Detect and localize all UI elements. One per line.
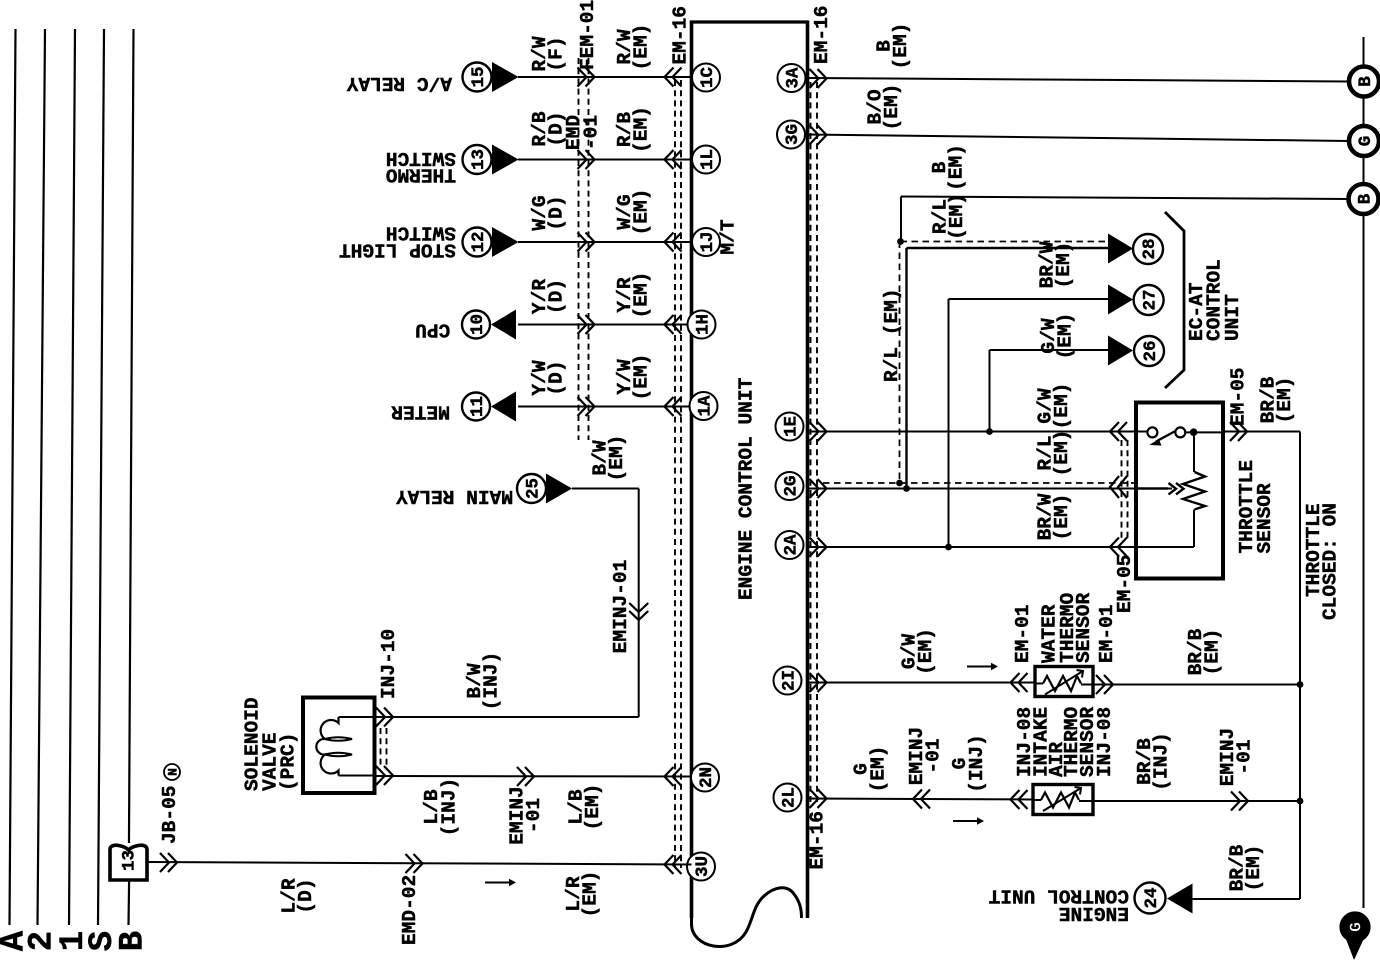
svg-text:13: 13 (119, 850, 139, 871)
pin 2I on right bus (774, 667, 802, 695)
svg-text:METER: METER (391, 400, 450, 422)
svg-text:ENGINE: ENGINE (1059, 902, 1129, 924)
device A/C RELAY (terminal 15) wire/arrow/circle (463, 62, 692, 92)
device label METER (391, 400, 450, 422)
svg-text:(EM): (EM) (630, 272, 652, 319)
junction block JB-05 box (110, 845, 147, 880)
wire label B/O (EM) (864, 84, 903, 131)
wire label B (EM) mid (929, 144, 968, 191)
label WATER THERMO SENSOR (1039, 593, 1095, 663)
node G/W junction on 1E wire (986, 428, 993, 435)
pin 3U on left bus (687, 853, 715, 881)
EM-16 dashed boundary left bus (675, 80, 681, 868)
svg-text:(EM): (EM) (1243, 845, 1265, 892)
device THERMO SWITCH (terminal 13) wire/arrow/circle (463, 145, 692, 175)
svg-text:2N: 2N (697, 767, 717, 788)
intake air thermo sensor box (1033, 785, 1093, 815)
wire label G (INJ) (949, 734, 988, 793)
wire label BR/W (EM) upper (1036, 241, 1075, 288)
wire intake sensor to BR/B line (1093, 792, 1300, 811)
svg-text:B: B (1355, 193, 1375, 204)
wire label L/B (EM) (565, 784, 604, 831)
terminal 26 arrow+circle (1108, 336, 1164, 367)
svg-text:11: 11 (468, 396, 488, 417)
wire label BR/W (EM) lower (1034, 493, 1073, 540)
wire dashed R/L to terminal 28 (901, 241, 1109, 243)
pin 2A on right bus (776, 531, 804, 559)
wire 3G to circled G (808, 126, 1350, 145)
svg-text:EM-01: EM-01 (1096, 605, 1118, 664)
svg-text:(D): (D) (295, 878, 317, 913)
svg-text:26: 26 (1141, 341, 1161, 362)
svg-text:(EM): (EM) (1051, 383, 1073, 430)
intake air resistor (1033, 787, 1093, 811)
node BR/B junction (intake) (1297, 798, 1304, 805)
svg-text:(EM): (EM) (881, 84, 903, 131)
svg-text:(INJ): (INJ) (1150, 732, 1172, 791)
wire 3A to circled B (808, 69, 1350, 88)
terminal 28 arrow+circle (1108, 234, 1163, 265)
connector label EMINJ-01 (intake right) (1217, 728, 1256, 787)
zone letter S (84, 931, 122, 951)
label ENGINE CONTROL UNIT (center) (735, 377, 757, 600)
wire label R/W (EM) EM side (614, 24, 653, 71)
zone letter 2 (24, 931, 62, 951)
wire solenoid to pin 2N (375, 767, 692, 786)
wire label L/B (INJ) (421, 778, 461, 837)
pin 2L on right bus (774, 784, 802, 812)
svg-text:1H: 1H (693, 314, 713, 335)
junction block number 13 (119, 850, 139, 871)
direction arrow above 2I wire (967, 663, 998, 671)
svg-text:-01: -01 (1233, 739, 1255, 774)
node BR/B junction (water) (1297, 681, 1304, 688)
label M/T at pin 1J (717, 219, 739, 254)
connector label INJ-08 (right) (1094, 707, 1116, 777)
svg-text:3A: 3A (783, 67, 803, 88)
svg-text:(EM): (EM) (867, 746, 889, 793)
wire label R/W (F) (529, 36, 568, 71)
svg-text:1J: 1J (698, 232, 718, 253)
svg-text:G: G (1347, 922, 1366, 932)
svg-text:(D): (D) (545, 279, 567, 314)
wire JB-05 to pin 3U (147, 853, 692, 874)
direction arrow on 3U wire (485, 879, 516, 887)
wire solid to terminal 28 (907, 248, 1109, 489)
connector label EMD-01 (563, 115, 603, 150)
svg-text:M/T: M/T (717, 219, 739, 254)
svg-text:-01: -01 (523, 798, 545, 833)
svg-text:(INJ): (INJ) (966, 734, 988, 793)
svg-text:(EM): (EM) (1051, 430, 1073, 477)
wire throttle switch to BR/B line (1223, 422, 1300, 441)
circled B (top) (1349, 67, 1379, 97)
engine control unit left bus line EM-16 (690, 21, 694, 919)
water thermo resistor (1035, 670, 1093, 695)
connector label EMD-02 (399, 875, 421, 945)
connector label EM-01 (left) (1012, 605, 1034, 664)
wire water sensor to BR/B line (1093, 675, 1300, 694)
wire label BR/B (EM) at water (1185, 628, 1224, 675)
wire pin 2G to throttle wiper (808, 476, 1173, 498)
svg-text:EM-16: EM-16 (669, 6, 691, 65)
wire label Y/R (EM) EM side (614, 272, 653, 319)
circled B (lower) (1349, 184, 1379, 214)
pin 2G on right bus (776, 472, 804, 500)
svg-text:(EM): (EM) (1053, 242, 1075, 289)
svg-text:(EM): (EM) (1054, 313, 1076, 360)
device MAIN RELAY (terminal 25) wire/arrow/circle (339, 474, 649, 718)
svg-text:(EM): (EM) (945, 144, 967, 191)
svg-text:B: B (1356, 76, 1376, 87)
svg-text:(INJ): (INJ) (480, 652, 502, 711)
connector label INJ-10 (378, 629, 400, 699)
svg-text:THERMO: THERMO (386, 163, 456, 185)
grid line / zone S (98, 29, 104, 925)
label EM-16 top right (811, 6, 833, 65)
throttle sensor box (1136, 403, 1223, 579)
terminal 27 arrow+circle (1108, 285, 1164, 316)
direction arrow below 2L wire (953, 817, 984, 825)
wire label R/L (EM) 2col (929, 193, 968, 240)
svg-text:25: 25 (523, 478, 543, 499)
wire label G (EM) (850, 746, 889, 793)
svg-text:(INJ): (INJ) (438, 778, 460, 837)
svg-text:EM-05: EM-05 (1114, 555, 1136, 614)
device label STOP LIGHT SWITCH (339, 221, 456, 260)
svg-text:(EM): (EM) (630, 354, 652, 401)
svg-text:1C: 1C (698, 67, 718, 88)
svg-text:SENSOR: SENSOR (1254, 483, 1276, 553)
svg-text:UNIT: UNIT (1222, 294, 1244, 341)
svg-text:ENGINE CONTROL UNIT: ENGINE CONTROL UNIT (735, 377, 757, 600)
connector label EMINJ-01 (2L wire) (906, 727, 945, 786)
label SOLENOID VALVE (PRC) (241, 697, 299, 791)
svg-text:2L: 2L (779, 787, 799, 808)
connector label JB-05 (159, 786, 181, 845)
svg-text:(D): (D) (545, 360, 567, 395)
svg-text:1A: 1A (695, 395, 715, 416)
svg-text:SENSOR: SENSOR (1073, 593, 1095, 663)
zone letter A (0, 930, 34, 951)
svg-text:INJ-10: INJ-10 (378, 629, 400, 699)
wire BR/B to terminal 24 (1193, 898, 1301, 900)
svg-text:(EM): (EM) (630, 24, 652, 71)
wire label L/R (D) (278, 878, 317, 913)
bus bottom continuation squiggle (692, 888, 802, 947)
svg-text:(EM): (EM) (946, 193, 968, 240)
label EC-AT CONTROL UNIT (1186, 259, 1244, 341)
EM-05 dashed boundary at throttle (1122, 440, 1128, 540)
svg-text:2I: 2I (779, 670, 799, 691)
svg-text:EM-05: EM-05 (1227, 368, 1249, 427)
zone letter B (115, 931, 153, 951)
wire to terminal 26 (990, 350, 1109, 432)
svg-text:EMINJ-01: EMINJ-01 (610, 560, 632, 654)
wire label W/G (EM) EM side (614, 189, 653, 236)
label R/L (EM) vertical (881, 288, 903, 382)
EM-16 dashed boundary right bus (811, 82, 818, 802)
device label CPU (415, 318, 450, 340)
label THROTTLE SENSOR (1236, 460, 1276, 554)
svg-text:JB-05: JB-05 (159, 786, 181, 845)
circled G (middle) (1349, 126, 1379, 156)
svg-text:MAIN RELAY: MAIN RELAY (396, 485, 513, 507)
FEM-01/EMD-01 dashed boundary (579, 58, 589, 440)
device CPU (terminal 10) wire/arrow/circle (462, 310, 692, 340)
wire label G/W (EM) lower (1034, 383, 1073, 430)
right edge vertical wire (1363, 37, 1365, 908)
circled G to other page (bottom right) (1342, 914, 1369, 960)
svg-text:(EM): (EM) (606, 435, 628, 482)
device label A/C RELAY (346, 72, 452, 94)
svg-text:2A: 2A (781, 534, 801, 555)
svg-text:(EM): (EM) (630, 106, 652, 153)
svg-text:27: 27 (1140, 290, 1160, 311)
wire label BR/B (INJ) (1134, 732, 1173, 791)
label THROTTLE CLOSED: ON (1303, 503, 1342, 620)
connector label EM-05 (upper) (1227, 368, 1249, 427)
wire label Y/W (EM) EM side (614, 354, 653, 401)
svg-text:(EM): (EM) (1201, 629, 1223, 676)
svg-text:EMD-02: EMD-02 (399, 875, 421, 945)
svg-text:STOP LIGHT: STOP LIGHT (339, 239, 456, 261)
svg-text:FEM-01: FEM-01 (577, 0, 599, 70)
wire label BR/B (EM) upper right (1257, 376, 1296, 423)
connector label EMINJ-01 (vertical wire) (610, 560, 632, 654)
throttle wiper arrow (1136, 483, 1184, 494)
svg-text:EM-16: EM-16 (806, 811, 828, 870)
node BR/W junction on 2A wire (945, 544, 952, 551)
wire label B/W (INJ) (464, 652, 503, 711)
svg-text:-01: -01 (922, 738, 944, 773)
connector label FEM-01 (577, 0, 599, 70)
zone letter 1 (55, 931, 93, 951)
svg-text:(PRC): (PRC) (277, 733, 299, 792)
svg-text:1L: 1L (698, 149, 718, 170)
wire pin 2I to water thermo sensor (808, 673, 1036, 692)
svg-text:24: 24 (1142, 888, 1162, 909)
device METER (terminal 11) wire/arrow/circle (462, 392, 692, 422)
engine control unit top line (690, 20, 808, 23)
engine control unit right bus line EM-16 (806, 21, 810, 919)
EC-AT bracket (1165, 212, 1184, 388)
wire label Y/R (D) (529, 279, 568, 314)
svg-text:INJ-08: INJ-08 (1094, 707, 1116, 777)
svg-text:12: 12 (469, 232, 489, 253)
wire pin 2L to intake sensor (808, 789, 1034, 809)
svg-text:-01: -01 (580, 115, 602, 150)
connector label EM-05 (lower) (1114, 555, 1136, 614)
wire label BR/B (EM) at 24 (1226, 844, 1265, 891)
svg-text:N: N (165, 768, 180, 776)
wire label B/W (EM) (589, 435, 628, 482)
svg-text:EM-01: EM-01 (1012, 605, 1034, 664)
pin 2N on left bus (691, 764, 719, 792)
svg-text:(EM): (EM) (915, 628, 937, 675)
wire to terminal 27 (949, 299, 1109, 547)
pin 3G on right bus (777, 121, 805, 149)
svg-text:(D): (D) (545, 195, 567, 230)
pin 1J on left bus (692, 228, 720, 256)
pin 1L on left bus (692, 146, 720, 174)
svg-text:B: B (115, 931, 153, 951)
wire pin 1E to throttle switch (808, 422, 1148, 441)
throttle switch contacts (1147, 427, 1223, 445)
svg-text:(EM): (EM) (579, 871, 601, 918)
svg-text:(EM): (EM) (1051, 494, 1073, 541)
solenoid coil symbol (316, 717, 375, 776)
wire label Y/W (D) (529, 360, 568, 395)
pin 3A on right bus (778, 64, 806, 92)
svg-text:15: 15 (469, 67, 489, 88)
wire label G/W (EM) at 2I (898, 628, 937, 675)
grid line / zone A (10, 29, 16, 925)
svg-text:(EM): (EM) (890, 23, 912, 70)
wire pin 2A to throttle resistor (808, 538, 1195, 557)
device label THERMO SWITCH (386, 147, 456, 186)
svg-text:CPU: CPU (415, 318, 450, 340)
svg-text:EM-16: EM-16 (811, 6, 833, 65)
connector label EMINJ-01 (2N wire) (506, 786, 545, 845)
svg-text:CLOSED: ON: CLOSED: ON (1319, 503, 1341, 620)
svg-text:3G: 3G (783, 124, 803, 145)
pin 1H on left bus (688, 311, 716, 339)
device STOP LIGHT SWITCH (terminal 12) wire/arrow/circle (463, 227, 692, 257)
svg-text:2G: 2G (781, 476, 801, 497)
pin 1A on left bus (690, 392, 718, 420)
svg-text:3U: 3U (693, 856, 713, 877)
node R/L junction (897, 238, 904, 245)
grid line / zone B (129, 29, 134, 925)
grid line / zone 2 (38, 29, 46, 925)
grid line / zone 1 (69, 29, 75, 925)
connector label EM-01 (right) (1096, 605, 1118, 664)
connector label INJ-08 (left) (1014, 707, 1036, 777)
wire label L/R (EM) (563, 871, 602, 918)
wire dashed 2G alternate (823, 242, 1136, 487)
wire circled B to R/L junction (901, 197, 1349, 242)
water thermo sensor box (1035, 667, 1093, 697)
wire label G/W (EM) upper (1038, 313, 1077, 360)
wire label R/L (EM) lower (1034, 430, 1073, 477)
label EM-16 bottom right (806, 811, 828, 870)
node solid junction on 2G wire (903, 485, 910, 492)
device label MAIN RELAY (396, 485, 513, 507)
svg-text:(EM): (EM) (582, 784, 604, 831)
svg-text:G: G (1356, 136, 1376, 147)
wire label B (EM) top (873, 23, 912, 70)
wire label R/B (D) (529, 111, 568, 146)
svg-text:10: 10 (468, 314, 488, 335)
solenoid valve box (303, 698, 375, 794)
circled N (164, 764, 180, 780)
terminal 24 arrow+circle (1135, 883, 1193, 914)
svg-text:A/C RELAY: A/C RELAY (346, 72, 452, 94)
svg-text:13: 13 (469, 149, 489, 170)
svg-text:(EM): (EM) (630, 189, 652, 236)
wire label W/G (D) (529, 195, 568, 230)
wire label R/B (EM) EM side (614, 106, 653, 153)
INJ-10 connector chevrons+dashes (376, 708, 393, 786)
label INTAKE AIR THERMO SENSOR (1030, 707, 1099, 777)
svg-text:(EM): (EM) (1274, 377, 1296, 424)
pin 1E on right bus (776, 413, 804, 441)
pin 1C on left bus (692, 64, 720, 92)
svg-text:(D): (D) (545, 111, 567, 146)
throttle resistor (1183, 436, 1205, 547)
BR/B vertical line (1299, 432, 1301, 900)
svg-text:28: 28 (1140, 239, 1160, 260)
device label ENGINE CONTROL UNIT (bottom) (988, 885, 1129, 925)
svg-text:(F): (F) (545, 36, 567, 71)
label EM-16 top left (669, 6, 691, 65)
svg-text:1E: 1E (781, 416, 801, 437)
